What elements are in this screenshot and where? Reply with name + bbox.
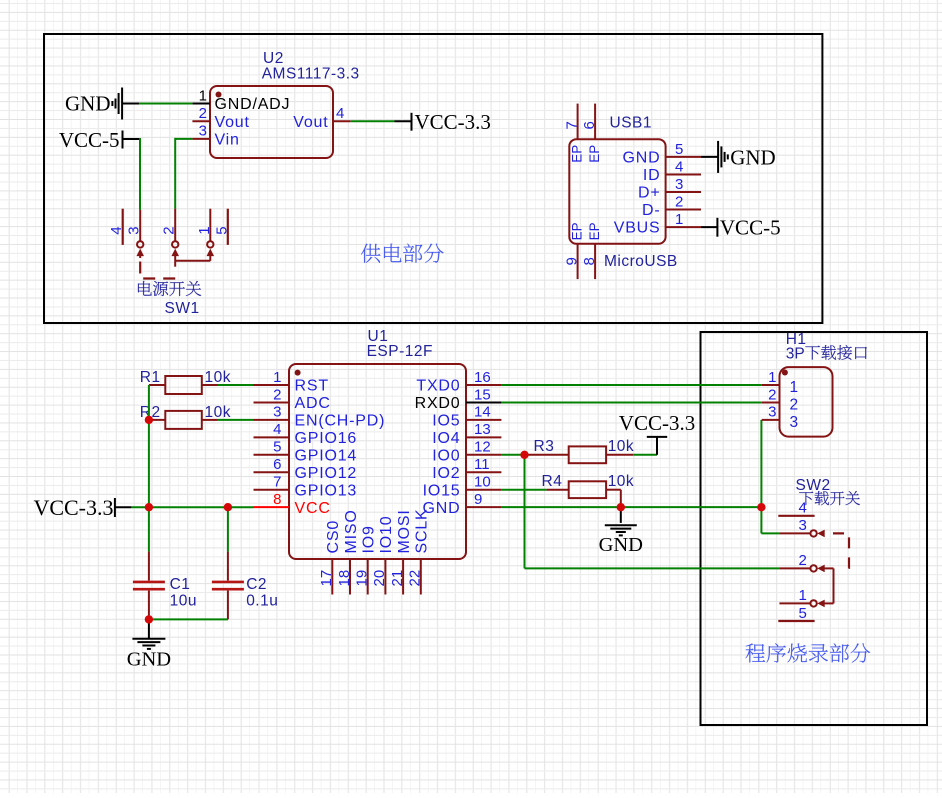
svg-text:14: 14 xyxy=(474,404,491,421)
svg-text:P: P xyxy=(794,346,804,363)
svg-text:D+: D+ xyxy=(638,185,661,202)
svg-text:3: 3 xyxy=(126,226,143,234)
svg-text:Vout: Vout xyxy=(293,114,328,131)
svg-text:2: 2 xyxy=(161,226,178,234)
svg-text:SCLK: SCLK xyxy=(414,509,431,554)
svg-text:VCC-5: VCC-5 xyxy=(59,128,120,152)
svg-text:2: 2 xyxy=(675,194,683,211)
svg-text:C1: C1 xyxy=(170,576,191,593)
svg-text:1: 1 xyxy=(768,369,776,386)
svg-text:4: 4 xyxy=(108,226,125,234)
svg-text:VBUS: VBUS xyxy=(614,220,661,237)
svg-text:ADC: ADC xyxy=(295,395,331,412)
svg-text:1: 1 xyxy=(799,587,807,604)
svg-text:IO2: IO2 xyxy=(432,465,460,482)
svg-text:5: 5 xyxy=(213,226,230,234)
svg-text:GND/ADJ: GND/ADJ xyxy=(215,96,291,113)
svg-text:1: 1 xyxy=(196,226,213,234)
svg-text:GPIO16: GPIO16 xyxy=(295,430,358,447)
svg-text:2: 2 xyxy=(199,105,207,122)
svg-text:GPIO14: GPIO14 xyxy=(295,447,358,464)
svg-text:10k: 10k xyxy=(205,404,232,421)
svg-text:6: 6 xyxy=(273,456,281,473)
svg-text:20: 20 xyxy=(371,570,388,587)
svg-text:10: 10 xyxy=(474,474,491,491)
svg-text:12: 12 xyxy=(474,439,491,456)
svg-text:13: 13 xyxy=(474,421,491,438)
svg-text:ESP-12F: ESP-12F xyxy=(367,343,433,360)
svg-text:IO10: IO10 xyxy=(378,516,395,554)
svg-text:Vout: Vout xyxy=(215,114,250,131)
svg-text:R3: R3 xyxy=(534,438,555,455)
svg-text:10k: 10k xyxy=(608,473,635,490)
svg-text:1: 1 xyxy=(199,87,207,104)
svg-text:RXD0: RXD0 xyxy=(415,395,461,412)
svg-text:VCC: VCC xyxy=(295,500,331,517)
svg-text:IO15: IO15 xyxy=(423,482,461,499)
svg-text:GPIO13: GPIO13 xyxy=(295,482,358,499)
svg-text:GND: GND xyxy=(599,534,643,556)
svg-text:10u: 10u xyxy=(170,593,197,610)
svg-text:3: 3 xyxy=(786,346,795,363)
svg-text:10k: 10k xyxy=(205,369,232,386)
svg-text:1: 1 xyxy=(675,211,683,228)
svg-text:AMS1117-3.3: AMS1117-3.3 xyxy=(262,66,360,83)
svg-text:3: 3 xyxy=(790,414,799,431)
svg-text:3: 3 xyxy=(675,176,683,193)
svg-text:VCC-3.3: VCC-3.3 xyxy=(415,110,491,134)
svg-text:10k: 10k xyxy=(608,438,635,455)
svg-text:IO0: IO0 xyxy=(432,447,460,464)
svg-text:5: 5 xyxy=(675,141,683,158)
svg-text:2: 2 xyxy=(790,396,799,413)
svg-text:GND: GND xyxy=(65,92,111,116)
svg-text:5: 5 xyxy=(273,439,281,456)
svg-text:R4: R4 xyxy=(542,473,563,490)
svg-text:EP: EP xyxy=(587,222,602,240)
svg-text:USB1: USB1 xyxy=(610,114,653,131)
svg-text:GND: GND xyxy=(127,649,171,671)
svg-text:18: 18 xyxy=(336,570,353,587)
svg-text:VCC-5: VCC-5 xyxy=(720,216,781,240)
svg-text:D-: D- xyxy=(642,202,660,219)
svg-text:4: 4 xyxy=(336,105,344,122)
svg-text:1: 1 xyxy=(790,379,799,396)
svg-text:3: 3 xyxy=(799,517,807,534)
svg-text:VCC-3.3: VCC-3.3 xyxy=(619,411,695,435)
svg-text:EP: EP xyxy=(569,145,584,163)
svg-text:7: 7 xyxy=(273,474,281,491)
svg-text:3: 3 xyxy=(768,404,776,421)
svg-text:R1: R1 xyxy=(140,369,161,386)
svg-text:4: 4 xyxy=(675,159,683,176)
svg-text:GND: GND xyxy=(623,150,661,167)
svg-text:C2: C2 xyxy=(246,576,267,593)
svg-text:1: 1 xyxy=(273,369,281,386)
svg-text:TXD0: TXD0 xyxy=(416,378,460,395)
svg-text:3: 3 xyxy=(199,123,207,140)
svg-text:IO4: IO4 xyxy=(432,430,460,447)
svg-text:EP: EP xyxy=(569,222,584,240)
svg-text:2: 2 xyxy=(273,386,281,403)
svg-text:MicroUSB: MicroUSB xyxy=(604,253,678,270)
svg-text:17: 17 xyxy=(318,570,335,587)
svg-text:2: 2 xyxy=(768,386,776,403)
svg-text:7: 7 xyxy=(564,121,581,129)
svg-text:9: 9 xyxy=(564,257,581,265)
svg-text:3: 3 xyxy=(273,404,281,421)
svg-text:RST: RST xyxy=(295,378,329,395)
svg-text:8: 8 xyxy=(273,491,281,508)
svg-text:IO9: IO9 xyxy=(361,525,378,553)
svg-text:ID: ID xyxy=(643,167,661,184)
svg-text:6: 6 xyxy=(581,121,598,129)
svg-text:MOSI: MOSI xyxy=(396,509,413,553)
svg-text:0.1u: 0.1u xyxy=(246,593,278,610)
svg-text:5: 5 xyxy=(799,605,807,622)
svg-text:SW1: SW1 xyxy=(165,300,200,317)
svg-text:MISO: MISO xyxy=(343,509,360,553)
svg-text:21: 21 xyxy=(389,570,406,587)
svg-text:IO5: IO5 xyxy=(432,413,460,430)
svg-text:19: 19 xyxy=(354,570,371,587)
svg-text:CS0: CS0 xyxy=(325,520,342,554)
svg-text:EN(CH-PD): EN(CH-PD) xyxy=(295,413,386,430)
svg-text:11: 11 xyxy=(474,456,490,473)
svg-text:U2: U2 xyxy=(263,50,284,67)
svg-text:GND: GND xyxy=(730,145,776,169)
svg-text:22: 22 xyxy=(407,570,424,587)
svg-text:Vin: Vin xyxy=(215,132,240,149)
svg-text:15: 15 xyxy=(474,386,491,403)
svg-text:2: 2 xyxy=(799,552,807,569)
svg-text:8: 8 xyxy=(581,257,598,265)
svg-text:EP: EP xyxy=(587,145,602,163)
svg-text:VCC-3.3: VCC-3.3 xyxy=(33,495,113,520)
svg-text:16: 16 xyxy=(474,369,491,386)
svg-text:9: 9 xyxy=(474,491,482,508)
svg-text:4: 4 xyxy=(273,421,281,438)
svg-text:GPIO12: GPIO12 xyxy=(295,465,358,482)
